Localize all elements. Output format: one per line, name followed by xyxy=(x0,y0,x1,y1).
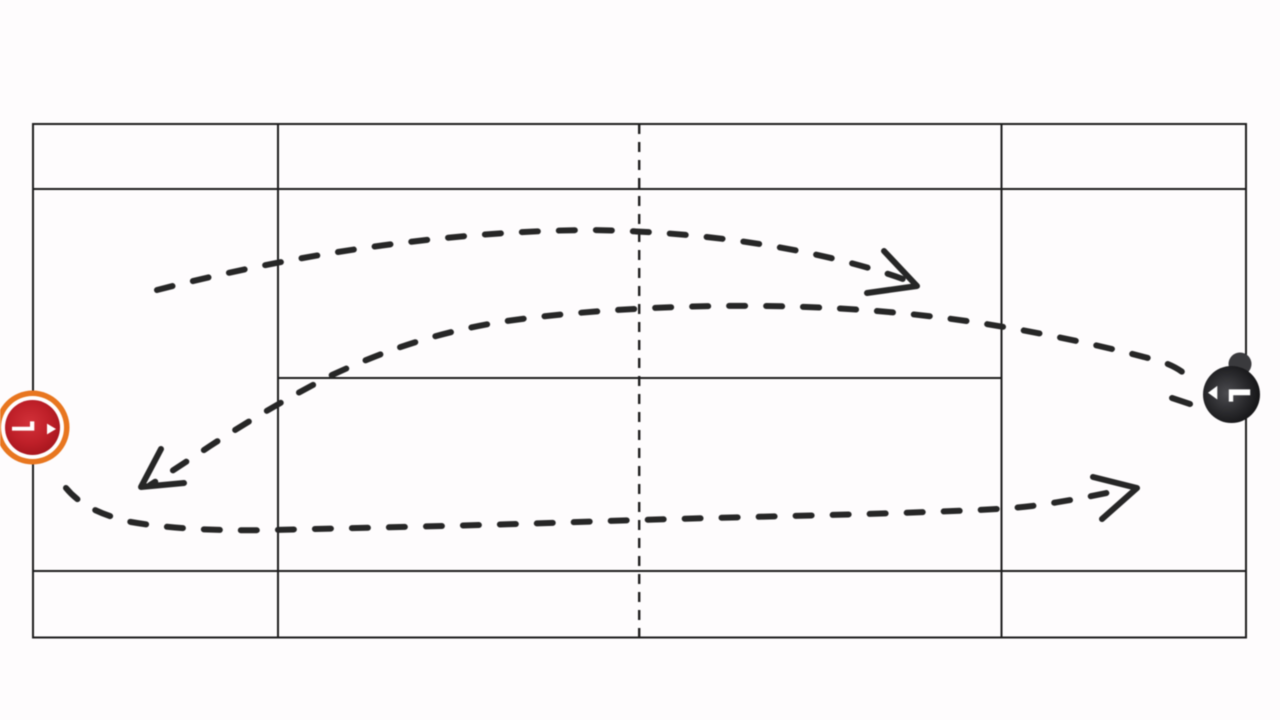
dashed movement path: bottom curve xyxy=(66,488,1120,530)
direction triangle on dark marker xyxy=(1208,386,1217,400)
court right service vertical line xyxy=(1001,124,1003,638)
player marker 1 (dark, right) xyxy=(1203,353,1260,424)
court center dashed vertical line xyxy=(638,124,640,638)
shadow bump behind dark marker xyxy=(1229,353,1252,376)
player marker 1 (red, left) xyxy=(0,391,70,465)
rotated numeral 1 on red marker xyxy=(12,421,34,430)
arrowhead of top arc xyxy=(867,251,917,293)
final dash of middle curve near dark marker xyxy=(1172,398,1190,404)
court bottom alley horizontal line xyxy=(33,570,1246,572)
dashed movement path: top arc xyxy=(157,230,903,290)
arrowhead of bottom curve xyxy=(1093,477,1137,519)
court top alley horizontal line xyxy=(33,188,1246,190)
rotated numeral 1 on dark marker xyxy=(1229,389,1250,401)
dashed movement path: middle curve xyxy=(150,306,1185,485)
court middle horizontal line xyxy=(278,377,1002,379)
court left service vertical line xyxy=(277,124,279,638)
arrowhead of middle curve xyxy=(141,449,184,487)
direction triangle on red marker xyxy=(47,424,56,435)
court outer boundary xyxy=(33,124,1246,638)
